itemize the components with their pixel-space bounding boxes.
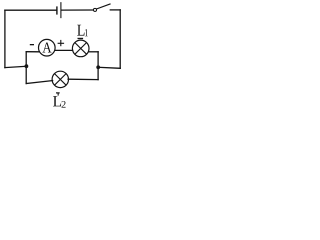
switch S blade (open) (97, 4, 110, 9)
label L2 subscript 2 (61, 101, 65, 108)
lamp L1 cross (75, 43, 87, 55)
wire left vertical (4, 10, 6, 67)
wire switch fixed contact to top-right corner (110, 9, 120, 11)
wire left connector from outer loop (5, 66, 26, 67)
label L1 letter L (77, 25, 84, 36)
wire right vertical (119, 10, 121, 68)
label L1 subscript 1 (85, 29, 88, 36)
junction node left (25, 64, 29, 68)
lamp L2 bottom contact tick (56, 92, 60, 95)
wire right connector to node (98, 67, 120, 68)
lamp L2 cross (55, 74, 67, 86)
wire L2 right to corner (68, 78, 98, 80)
lamp L1 top contact tick (78, 38, 84, 39)
switch S pivot circle (93, 8, 96, 11)
label L2 letter L (53, 96, 61, 106)
ammeter A1 circle (39, 39, 56, 56)
wire ammeter left (26, 51, 39, 53)
wire L1 right (89, 51, 98, 53)
ammeter plus polarity mark (58, 40, 65, 46)
wire top-left horizontal (5, 9, 56, 11)
lamp L1 circle (72, 40, 89, 57)
ammeter minus polarity mark (30, 44, 34, 45)
lamp L2 circle (52, 71, 68, 87)
wire battery to switch (62, 9, 94, 11)
wire ammeter to L1 (55, 49, 73, 51)
ammeter letter A (42, 42, 51, 52)
battery cell negative short plate (56, 7, 58, 14)
wire right branch vertical (97, 52, 99, 80)
junction node right (96, 65, 100, 69)
wire left branch vertical (25, 52, 27, 84)
wire bottom-left to L2 (26, 81, 52, 84)
battery cell positive long plate (60, 3, 62, 18)
